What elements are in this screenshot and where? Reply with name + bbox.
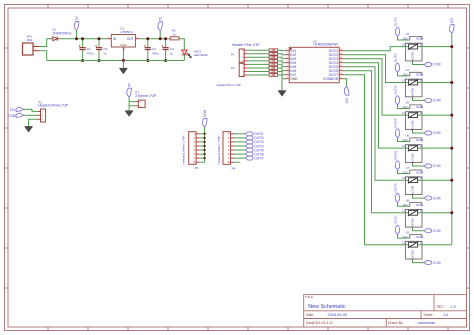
wire OUT/7 port to relay coil <box>398 235 410 239</box>
svg-text:COM: COM <box>8 114 16 118</box>
relay U2 <box>402 32 423 61</box>
svg-text:U8: U8 <box>406 198 410 202</box>
junction 12V rail at relay U5 <box>450 114 453 117</box>
resistor R1 <box>170 28 179 40</box>
svg-text:1COM: 1COM <box>410 87 414 96</box>
wire R4 to U3 pin3 <box>278 57 286 58</box>
svg-text:12: 12 <box>420 111 424 115</box>
svg-text:TITLE:: TITLE: <box>305 295 314 299</box>
svg-text:11: 11 <box>402 241 405 245</box>
svg-text:NZ1A: NZ1A <box>416 138 423 142</box>
wire into relay U6 pin 11 <box>403 147 405 149</box>
net port OUT/7 <box>245 156 264 160</box>
svg-text:Sheet:: Sheet: <box>423 313 433 317</box>
svg-text:1u: 1u <box>170 51 174 55</box>
wire U3 OUT/3 to relay U5 <box>343 59 403 115</box>
wire P4 pin3 to port OUT/3 <box>234 141 245 143</box>
net flag COM at relay U6 <box>424 164 440 168</box>
junction P6 bus pin6 <box>203 153 205 155</box>
wire P1 pin to R5 <box>247 60 269 62</box>
svg-text:U9: U9 <box>406 230 410 234</box>
resistor R4 <box>269 56 278 59</box>
relay U7 <box>402 166 423 195</box>
svg-text:Date:: Date: <box>306 313 314 317</box>
svg-text:U2: U2 <box>406 32 410 36</box>
wire P6 pin6 to bus <box>200 153 205 155</box>
wire P6 pin8 to bus <box>200 161 205 163</box>
net flag COM at relay U8 <box>424 229 440 233</box>
wire OUT/3 port to relay coil <box>398 105 410 109</box>
svg-text:U6: U6 <box>406 134 410 138</box>
wire U3 OUT/7 to relay U9 <box>343 75 403 245</box>
wire D1 cathode to U1 IN <box>60 38 108 40</box>
wire to P7 pin2 <box>129 105 136 107</box>
svg-text:11: 11 <box>402 78 405 82</box>
svg-text:1N2: 1N2 <box>403 235 409 239</box>
net port OUT/6 at relay U8 <box>393 183 399 202</box>
wire 5V flag stem <box>159 31 161 39</box>
svg-text:OUT/4: OUT/4 <box>393 118 397 127</box>
wire OUT/4 port to relay coil <box>398 138 410 142</box>
svg-text:6: 6 <box>286 69 287 71</box>
wire P6 pin1 to bus <box>200 133 205 135</box>
junction 9V node <box>75 37 78 40</box>
svg-text:GND: GND <box>120 43 126 47</box>
svg-text:12V: 12V <box>450 17 454 24</box>
net port OUT/2 at relay U4 <box>393 53 399 72</box>
svg-text:1: 1 <box>286 49 287 51</box>
junction C3 bottom <box>98 59 101 62</box>
wire P4 pin1 to port OUT/1 <box>234 133 245 135</box>
net flag COM at relay U7 <box>424 196 440 200</box>
net flag COM P6 oval <box>202 109 207 127</box>
svg-text:COM: COM <box>433 63 441 67</box>
wire P2 pin to R7 <box>247 67 269 69</box>
junction C4 top <box>164 37 167 40</box>
svg-text:OUT/5: OUT/5 <box>393 151 397 160</box>
svg-text:1COM: 1COM <box>410 52 414 61</box>
svg-text:Header2.54mm 1*3P: Header2.54mm 1*3P <box>38 104 68 108</box>
wire P2 pin to R6 <box>247 63 269 65</box>
svg-text:11: 11 <box>402 111 405 115</box>
wire JP1 pin2 down to ground rail <box>40 51 47 61</box>
svg-text:1N4007RLG: 1N4007RLG <box>52 31 72 35</box>
ground below P3 <box>25 127 33 132</box>
svg-text:3: 3 <box>286 57 287 59</box>
wire OUT/6 port to relay coil <box>398 203 410 207</box>
svg-text:P4: P4 <box>232 167 236 171</box>
svg-text:COM: COM <box>433 261 441 265</box>
wire rail to ground symbol <box>122 61 124 69</box>
net flag COM at relay U5 <box>424 131 440 135</box>
svg-text:9: 9 <box>340 77 341 79</box>
wire JP1 pin1 to D1 anode <box>40 39 51 47</box>
svg-text:New Schematic: New Schematic <box>308 304 346 310</box>
junction P6 bus pin1 <box>203 133 205 135</box>
svg-text:OUT/2: OUT/2 <box>393 53 397 62</box>
diode D1 <box>51 28 72 41</box>
svg-text:OUT/3: OUT/3 <box>393 85 397 94</box>
wire P1 pin to R2 <box>247 49 269 51</box>
wire U3 OUT/5 to relay U7 <box>343 67 403 181</box>
wire into relay U8 pin 11 <box>403 212 405 214</box>
wire relay U2 switch path <box>405 46 422 48</box>
svg-text:1u: 1u <box>103 51 107 55</box>
relay U4 <box>402 68 423 97</box>
svg-text:11: 11 <box>402 176 405 180</box>
relay U7 bottom pin <box>412 195 414 197</box>
wire into relay U2 pin 11 <box>403 46 405 48</box>
svg-text:7: 7 <box>286 73 287 75</box>
svg-text:16: 16 <box>340 49 342 51</box>
wire P6 pin7 to bus <box>200 157 205 159</box>
svg-text:1COM: 1COM <box>410 185 414 194</box>
junction C2 top <box>146 37 149 40</box>
wire P6 pin3 to bus <box>200 141 205 143</box>
svg-text:nazrinshah: nazrinshah <box>418 321 436 325</box>
relay U2 bottom pin <box>412 61 414 63</box>
svg-text:10: 10 <box>340 73 342 75</box>
ground below U1 <box>119 68 127 73</box>
svg-text:U5: U5 <box>406 101 410 105</box>
junction 12V rail at relay U7 <box>450 179 453 182</box>
svg-text:1COM: 1COM <box>410 218 414 227</box>
svg-text:GND: GND <box>290 77 298 81</box>
capacitor C4 <box>162 39 174 61</box>
net flag 12V rail oval <box>450 17 455 34</box>
svg-text:1.0: 1.0 <box>451 305 456 309</box>
connector P2 <box>231 63 247 77</box>
net port OUT/2 <box>245 136 264 140</box>
svg-text:12V: 12V <box>345 97 349 104</box>
ground below P7 <box>125 111 133 116</box>
svg-text:OUT/7: OUT/7 <box>393 215 397 224</box>
net flag COM <box>8 113 24 118</box>
wire relay U5 COM to flag <box>413 131 425 133</box>
svg-text:1/1: 1/1 <box>443 313 448 317</box>
wire R9 to U3 pin8 <box>278 75 286 79</box>
svg-text:15: 15 <box>340 53 342 55</box>
wire 9V flag stem <box>76 31 78 39</box>
wire R3 to U3 pin2 <box>278 53 286 56</box>
svg-text:COM: COM <box>433 164 441 168</box>
wire P1 pin to R4 <box>247 56 269 58</box>
wire relay U2 COM to flag <box>413 63 425 65</box>
relay U6 bottom pin <box>412 162 414 164</box>
svg-text:1N2: 1N2 <box>403 170 409 174</box>
wire into relay U9 pin 11 <box>403 244 405 246</box>
resistor R9 <box>269 74 278 77</box>
wire relay U7 COM to flag <box>413 196 425 198</box>
net port OUT/6 <box>245 152 264 156</box>
svg-text:COM: COM <box>433 229 441 233</box>
svg-text:12: 12 <box>420 42 424 46</box>
relay U6 <box>402 134 423 163</box>
wire OUT/1 port to relay coil <box>398 36 410 40</box>
wire into relay U4 pin 11 <box>403 82 405 84</box>
wire to P7 pin1 <box>129 101 136 103</box>
wire relay U6 pin 12 to 12V rail <box>422 147 452 149</box>
wire P2 pin to R8 <box>247 71 269 73</box>
wire into relay U7 pin 11 <box>403 179 405 181</box>
svg-text:8: 8 <box>286 77 287 79</box>
wire R8 to U3 pin7 <box>278 72 286 75</box>
wire relay U7 switch path <box>405 179 422 181</box>
wire P1 pin to R3 <box>247 53 269 55</box>
svg-text:U7: U7 <box>406 166 410 170</box>
junction P6 bus pin4 <box>203 145 205 147</box>
junction 5V node <box>159 37 162 40</box>
connector P3 <box>38 100 68 122</box>
svg-text:11: 11 <box>340 69 342 71</box>
svg-text:Header2.54mm 1*4P: Header2.54mm 1*4P <box>217 83 241 87</box>
svg-text:REV: REV <box>437 305 445 309</box>
svg-text:COM: COM <box>433 196 441 200</box>
relay U4 switch symbol <box>408 79 419 85</box>
svg-text:2.54mm 1*3P: 2.54mm 1*3P <box>135 94 157 98</box>
resistor R6 <box>269 63 278 66</box>
svg-text:12V: 12V <box>9 108 16 112</box>
net port OUT/1 <box>245 132 264 136</box>
svg-text:NZ1A: NZ1A <box>416 170 423 174</box>
relay U5 bottom pin <box>412 129 414 131</box>
svg-text:12: 12 <box>340 65 342 67</box>
junction 12V rail at relay U2 <box>450 45 453 48</box>
wire relay U8 pin 12 to 12V rail <box>422 212 452 214</box>
svg-text:1COM: 1COM <box>410 250 414 259</box>
svg-text:L7805CV: L7805CV <box>120 30 133 34</box>
wire relay U6 switch path <box>405 147 422 149</box>
wire relay U7 pin 12 to 12V rail <box>422 179 452 181</box>
resistor R8 <box>269 70 278 73</box>
wire P4 pin6 to port OUT/6 <box>234 153 245 155</box>
relay U2 switch symbol <box>408 44 419 50</box>
connector P6 <box>182 132 200 171</box>
svg-text:NZ1A: NZ1A <box>416 37 423 41</box>
wire R2 to U3 pin1 <box>278 49 286 52</box>
connector P7 <box>135 91 157 108</box>
svg-text:1COM: 1COM <box>410 153 414 162</box>
wire P6 bus vertical <box>204 127 206 162</box>
svg-text:OUT: OUT <box>127 37 134 41</box>
capacitor C3 <box>95 39 107 61</box>
wire OUT/5 port to relay coil <box>398 170 410 174</box>
wire U3 OUT/4 to relay U6 <box>343 63 403 148</box>
resistor R3 <box>269 52 278 55</box>
wire relay U8 COM to flag <box>413 229 425 231</box>
LED1 <box>182 50 208 58</box>
wire U3 OUT/6 to relay U8 <box>343 71 403 213</box>
relay U9 bottom pin <box>412 259 414 261</box>
junction P6 bus pin5 <box>203 149 205 151</box>
wire R6 to U3 pin5 <box>278 64 286 66</box>
wire U3 GND down <box>281 79 283 91</box>
wire relay U8 switch path <box>405 212 422 214</box>
net port OUT/5 at relay U7 <box>393 151 399 170</box>
wire P4 pin7 to port OUT/7 <box>234 157 245 159</box>
wire relay U4 COM to flag <box>413 99 425 101</box>
junction 12V rail at relay U8 <box>450 211 453 214</box>
wire R1 to LED1 <box>179 39 184 50</box>
wire 12V rail vertical <box>451 33 453 244</box>
svg-text:12: 12 <box>420 176 424 180</box>
junction P6 bus pin7 <box>203 157 205 159</box>
net flag COM at relay U2 <box>424 63 440 67</box>
junction rail at U1 GND <box>122 59 125 62</box>
svg-text:1N2: 1N2 <box>403 138 409 142</box>
svg-text:1N2: 1N2 <box>403 73 409 77</box>
wire P6 pin2 to bus <box>200 137 205 139</box>
svg-text:Header2.54mm 1*8P: Header2.54mm 1*8P <box>217 136 221 165</box>
resistor R7 <box>269 67 278 70</box>
svg-text:COM: COM <box>433 99 441 103</box>
wire COM to P3 pin2 <box>23 114 37 116</box>
net flag 5V P7 oval <box>127 82 132 97</box>
relay U4 bottom pin <box>412 97 414 99</box>
net port OUT/7 at relay U9 <box>393 215 399 234</box>
relay U8 bottom pin <box>412 227 414 229</box>
connector JP1 <box>23 34 40 55</box>
wire U1 OUT to R1 <box>139 38 170 40</box>
wire relay U4 pin 12 to 12V rail <box>422 82 452 84</box>
junction C2 bottom <box>146 59 149 62</box>
wire P4 pin4 to port OUT/4 <box>234 145 245 147</box>
capacitor C1 <box>79 39 94 61</box>
net port OUT/5 <box>245 148 264 152</box>
wire P6 pin4 to bus <box>200 145 205 147</box>
junction 12V rail at relay U4 <box>450 81 453 84</box>
junction P6 bus pin3 <box>203 141 205 143</box>
wire relay U9 switch path <box>405 244 422 246</box>
resistor R2 <box>269 49 278 52</box>
net port OUT/4 <box>245 144 264 148</box>
net flag COM at relay U4 <box>424 98 440 102</box>
wire 12V to P3 pin1 <box>23 109 37 111</box>
svg-text:14: 14 <box>340 57 342 59</box>
svg-text:P2: P2 <box>231 66 235 70</box>
svg-text:Drawn By:: Drawn By: <box>388 321 404 325</box>
svg-text:ULN2003A(PW): ULN2003A(PW) <box>313 42 337 46</box>
net port OUT/1 at relay U2 <box>393 17 399 36</box>
net port OUT/3 at relay U5 <box>393 85 399 104</box>
wire R5 to U3 pin4 <box>278 61 286 63</box>
capacitor C2 <box>144 39 159 61</box>
wire U3 OUT/2 to relay U4 <box>343 55 403 83</box>
svg-text:470u: 470u <box>152 51 159 55</box>
wire OUT/2 port to relay coil <box>398 72 410 76</box>
svg-text:4: 4 <box>286 61 287 63</box>
svg-text:COMMON: COMMON <box>323 77 339 81</box>
svg-text:NZ1A: NZ1A <box>416 73 423 77</box>
relay U5 <box>402 101 423 130</box>
wire R7 to U3 pin6 <box>278 68 286 71</box>
svg-text:11: 11 <box>402 144 405 148</box>
net flag 12V below COMMON <box>344 86 349 103</box>
svg-text:OUT/1: OUT/1 <box>393 17 397 26</box>
junction C1 bottom <box>81 59 84 62</box>
IC U3 ULN2003A <box>285 39 343 82</box>
wire P4 pin5 to port OUT/5 <box>234 149 245 151</box>
net port OUT/4 at relay U6 <box>393 118 399 137</box>
svg-text:NZ1A: NZ1A <box>416 203 423 207</box>
svg-text:1k: 1k <box>172 32 176 36</box>
net flag 9V oval <box>74 16 79 31</box>
svg-text:P6: P6 <box>195 166 199 170</box>
svg-text:M02: M02 <box>27 38 33 42</box>
wire relay U4 switch path <box>405 82 422 84</box>
relay U9 switch symbol <box>408 242 419 248</box>
svg-text:U4: U4 <box>406 68 410 72</box>
svg-text:P1: P1 <box>231 52 235 56</box>
svg-text:NZ1A: NZ1A <box>416 235 423 239</box>
svg-text:13: 13 <box>340 61 342 63</box>
svg-text:2: 2 <box>286 53 287 55</box>
svg-text:COM: COM <box>433 131 441 135</box>
svg-text:COM: COM <box>203 109 207 117</box>
svg-text:Header2.54mm 1*8P: Header2.54mm 1*8P <box>182 136 186 165</box>
wire LED1 cathode to rail <box>183 55 185 61</box>
wire relay U5 pin 12 to 12V rail <box>422 114 452 116</box>
svg-text:11: 11 <box>402 209 405 213</box>
connector P4 <box>217 132 236 171</box>
svg-text:OUT/7: OUT/7 <box>254 156 264 160</box>
wire relay U9 pin 12 to 12V rail <box>422 244 452 246</box>
svg-text:470u: 470u <box>87 51 94 55</box>
svg-text:12: 12 <box>420 144 424 148</box>
net flag 5V oval <box>158 16 163 31</box>
resistor R5 <box>269 60 278 63</box>
junction C1 top <box>81 37 84 40</box>
svg-text:5: 5 <box>286 65 287 67</box>
svg-text:1COM: 1COM <box>410 120 414 129</box>
junction C4 bottom <box>164 59 167 62</box>
junction C3 top <box>98 37 101 40</box>
svg-text:OUT/6: OUT/6 <box>393 183 397 192</box>
wire P4 pin2 to port OUT/2 <box>234 137 245 139</box>
relay U8 <box>402 198 423 227</box>
wire relay U2 pin 12 to 12V rail <box>422 46 452 48</box>
svg-text:2018-05-09: 2018-05-09 <box>328 313 347 317</box>
svg-text:1N2: 1N2 <box>403 105 409 109</box>
relay U8 switch symbol <box>408 210 419 216</box>
relay U7 switch symbol <box>408 177 419 183</box>
regulator U1 L7805CV <box>107 26 139 51</box>
net flag 12V <box>9 107 23 112</box>
wire relay U6 COM to flag <box>413 164 425 166</box>
svg-text:11: 11 <box>402 42 405 46</box>
net port OUT/3 <box>245 140 264 144</box>
relay U9 <box>402 230 423 259</box>
svg-text:12: 12 <box>420 209 424 213</box>
wire P6 pin5 to bus <box>200 149 205 151</box>
wire U3 COMMON to 12V flag <box>343 79 346 87</box>
wire P4 pin8 stub <box>234 161 240 163</box>
junction 12V rail at relay U6 <box>450 147 453 150</box>
svg-text:Header Pins 1*4P: Header Pins 1*4P <box>232 43 260 47</box>
connector P1 <box>231 49 247 63</box>
wire U3 OUT/1 to relay U2 <box>343 47 403 51</box>
svg-text:1N2: 1N2 <box>403 37 409 41</box>
svg-text:12: 12 <box>420 78 424 82</box>
junction P6 bus pin2 <box>203 137 205 139</box>
wire ground rail <box>47 60 185 62</box>
title block <box>304 295 467 327</box>
wire 5V flag down <box>128 97 130 111</box>
wire relay U9 COM to flag <box>413 261 425 263</box>
ground below U3 <box>278 91 286 96</box>
wire P2 pin to R9 <box>247 74 269 76</box>
svg-text:1N2: 1N2 <box>403 203 409 207</box>
